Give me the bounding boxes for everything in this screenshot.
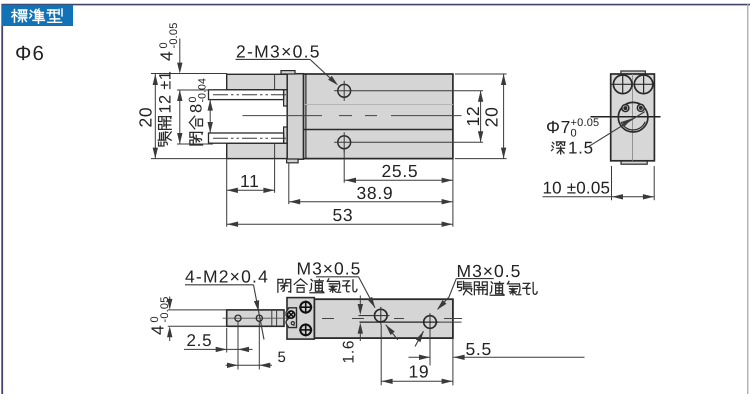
- svg-text:2.5: 2.5: [187, 331, 213, 350]
- dimension 12 (hole spacing, right): [480, 91, 482, 143]
- top view: lower jaw divider line: [274, 143, 276, 158]
- top view: bar top tab: [281, 71, 295, 74]
- bottom view: knuckle small pin: [291, 322, 294, 325]
- bottom view: plate screw top: [300, 302, 311, 313]
- dimension 閉合 8 0/-0.04 (closed): [209, 100, 211, 133]
- pointer arrow at port 1: [386, 325, 398, 340]
- top view: body left double line: [305, 74, 307, 159]
- svg-text:19: 19: [409, 362, 430, 382]
- dimension 11: [274, 159, 276, 193]
- air port 1 閉合 (close): [375, 309, 388, 322]
- svg-text:M3×0.5: M3×0.5: [457, 261, 522, 281]
- bottom view: arm hole 1 (M2): [235, 315, 241, 321]
- svg-text:12 ±1: 12 ±1: [156, 71, 174, 114]
- svg-text:20: 20: [136, 107, 156, 128]
- svg-text:-0.04: -0.04: [197, 78, 209, 102]
- page frame left border: [1, 4, 3, 394]
- air port 2 張開 (open): [424, 316, 437, 329]
- top view: body internal line upper (light): [303, 104, 453, 106]
- banner text 標準型: [12, 9, 27, 22]
- bottom view: body block: [314, 299, 453, 338]
- end view: horizontal centerline: [591, 116, 661, 118]
- end view: body plate: [611, 74, 655, 161]
- svg-text:-0.05: -0.05: [159, 296, 171, 322]
- port 2 axis line (long): [360, 321, 439, 323]
- svg-text:53: 53: [333, 205, 354, 225]
- dimension 張開 12 ±1 (open): [177, 89, 213, 91]
- svg-text:2-M3×0.5: 2-M3×0.5: [236, 42, 321, 62]
- svg-text:Φ7: Φ7: [546, 117, 571, 137]
- page frame right border: [747, 4, 749, 394]
- dimension 1.6 (port offset): [359, 296, 361, 305]
- end view: port hole right (eye): [637, 104, 644, 111]
- svg-text:1.6: 1.6: [341, 340, 358, 364]
- svg-text:20: 20: [481, 106, 501, 127]
- label 深1.5 (depth 1.5): [551, 142, 565, 154]
- screw hole 2 (lower M3): [338, 136, 351, 149]
- end view: screws horizontal axis: [612, 83, 655, 85]
- dimension 20 (right, overall height): [455, 73, 507, 75]
- dimension 5.5: [429, 330, 431, 366]
- dimension 5: [237, 321, 239, 369]
- end view: mounting screw circle left: [613, 75, 632, 94]
- pointer arrow at port 2: [415, 331, 424, 346]
- svg-text:4: 4: [148, 325, 168, 335]
- top view: main centerline dashes: [243, 115, 323, 117]
- dimension 4 (top, 0/-0.05): [151, 73, 227, 75]
- dimension 4 0/-0.05 (left, arm height): [168, 309, 227, 311]
- top view: bar bottom tab: [287, 159, 299, 163]
- bottom view: arm hole 2 (M2): [256, 315, 262, 321]
- end view: mounting screw circle right: [634, 75, 653, 94]
- top view: upper finger lip: [209, 90, 284, 100]
- end view: Φ7 counterbore outer circle: [618, 102, 648, 132]
- svg-text:-0.05: -0.05: [168, 22, 180, 48]
- dimension 20 (left, overall height): [151, 158, 227, 160]
- top view: guide bar: [287, 74, 303, 160]
- end view: bottom tab: [621, 161, 647, 164]
- svg-text:M3×0.5: M3×0.5: [297, 259, 362, 279]
- svg-text:25.5: 25.5: [382, 161, 419, 181]
- top view: lower jaw block: [227, 143, 288, 158]
- svg-text:4-M2×0.4: 4-M2×0.4: [185, 267, 269, 287]
- svg-text:12: 12: [463, 106, 483, 127]
- screw hole 1 (upper M3): [338, 84, 351, 97]
- top view: lower lip centerline (dash-dot): [213, 137, 287, 139]
- svg-text:1.5: 1.5: [568, 139, 594, 158]
- dimension 10 ±0.05: [611, 166, 613, 200]
- leader line for Φ7: [589, 112, 645, 147]
- dimension 38.9: [288, 163, 290, 204]
- top view: upper lip centerline (dash-dot): [213, 94, 287, 96]
- bottom view: arm centerline: [223, 317, 293, 319]
- bottom view: finger arm: [227, 310, 284, 326]
- top view: body internal line lower (dark): [303, 129, 453, 131]
- top view: upper jaw step: [284, 90, 288, 106]
- dimension 53: [226, 159, 228, 227]
- svg-text:Φ6: Φ6: [15, 42, 45, 65]
- bottom view: knuckle screw: [288, 311, 295, 318]
- top view: lower finger lip: [209, 133, 284, 143]
- dimension 2.5: [226, 328, 228, 353]
- blue title banner: [2, 5, 74, 26]
- bottom view: plate screw bottom: [300, 325, 311, 336]
- dimension 25.5: [343, 149, 345, 183]
- svg-text:4: 4: [157, 51, 177, 61]
- top view: upper jaw block: [227, 74, 288, 90]
- end view: port hole left (eye): [622, 105, 629, 112]
- end view: vertical centerline: [632, 74, 634, 161]
- top view: lower jaw step: [284, 127, 288, 143]
- bottom view: body centerline dashes: [322, 318, 334, 320]
- end view: top tab: [621, 71, 645, 74]
- end view: Φ7 counterbore inner arc: [621, 122, 645, 130]
- svg-text:8: 8: [188, 103, 206, 113]
- bottom view: knuckle pivot: [286, 308, 296, 328]
- dimension 19: [380, 325, 382, 386]
- svg-text:10 ±0.05: 10 ±0.05: [543, 179, 611, 198]
- svg-text:5: 5: [278, 349, 287, 366]
- bottom view: mounting plate: [287, 298, 314, 340]
- svg-text:11: 11: [240, 171, 260, 191]
- svg-text:5.5: 5.5: [466, 339, 492, 359]
- top view: upper jaw divider line: [274, 74, 276, 90]
- page frame top border: [2, 4, 750, 6]
- svg-text:38.9: 38.9: [357, 183, 394, 203]
- top view: body block: [303, 74, 453, 159]
